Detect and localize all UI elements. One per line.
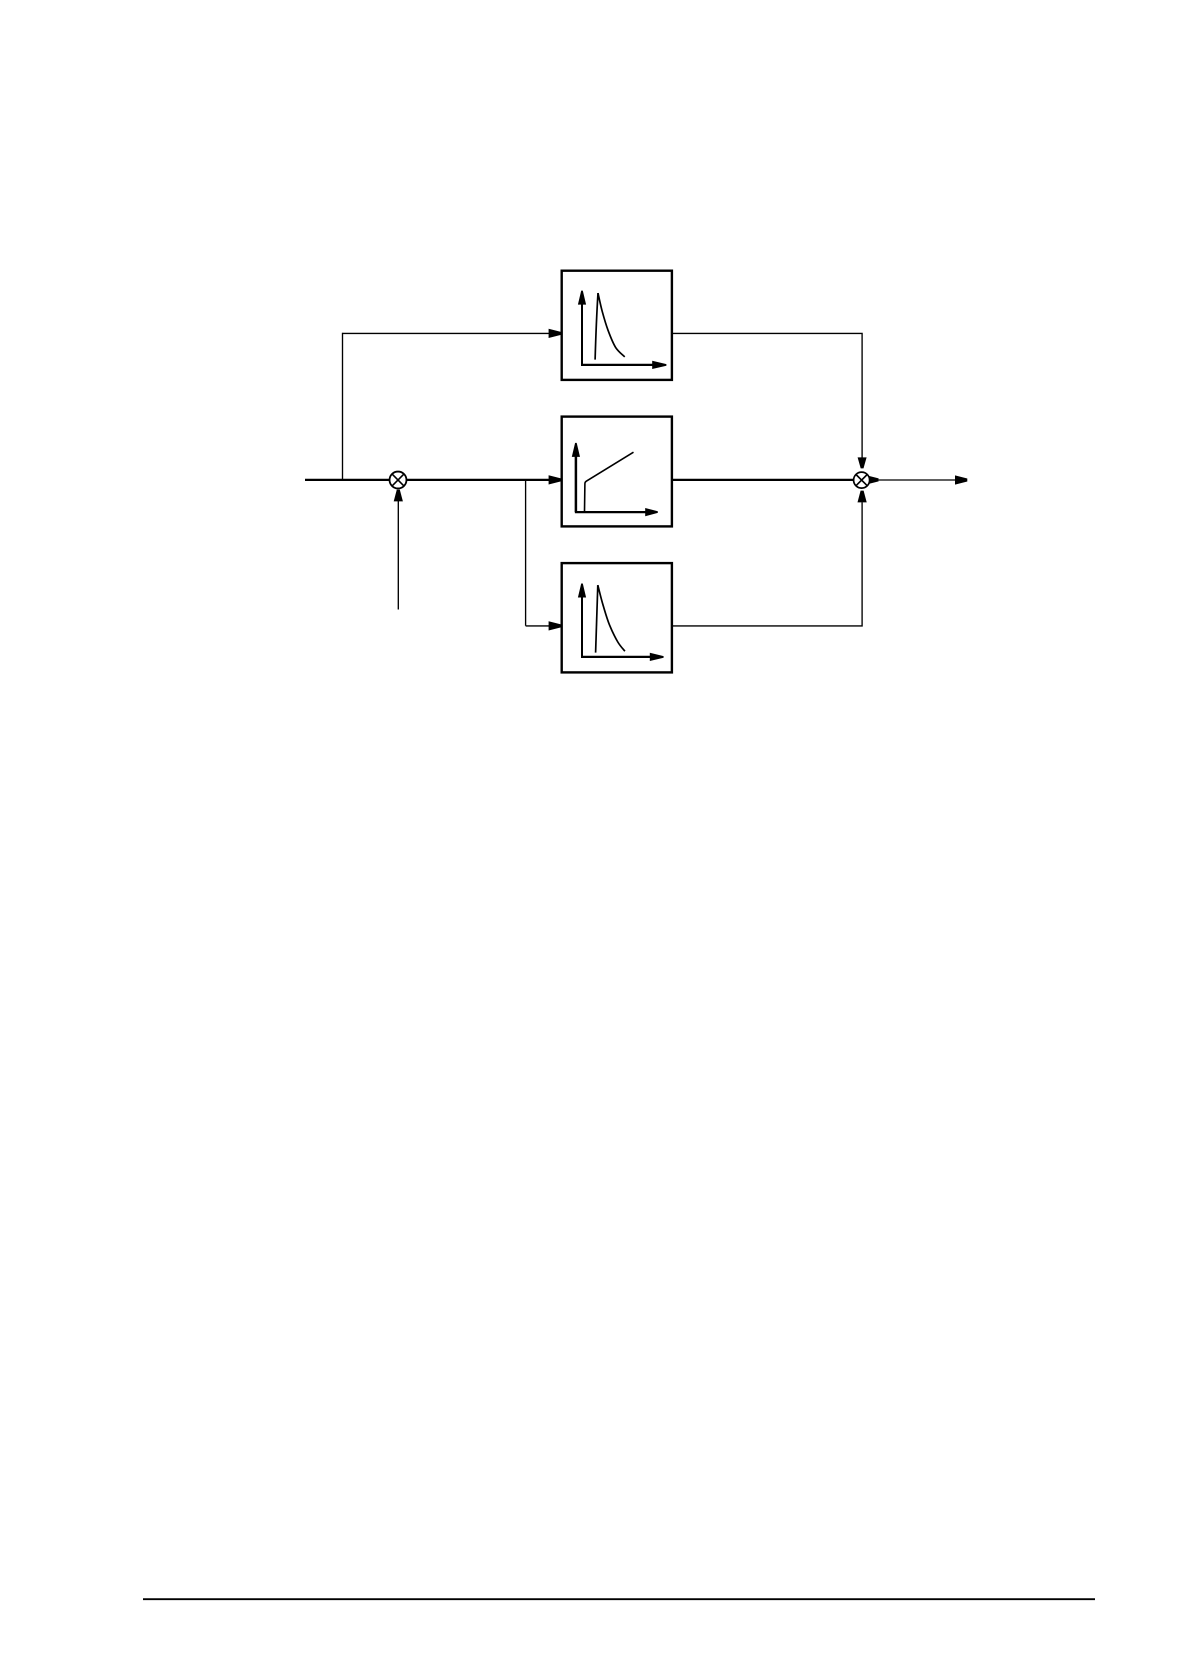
arrowhead into middle block input — [549, 475, 561, 484]
block 1 curve rising flank — [595, 293, 598, 360]
block 2 x-axis arrowhead — [645, 508, 658, 516]
arrowhead into M2 top — [858, 457, 867, 468]
block 3 curve exponential decay — [598, 585, 625, 651]
wire top block output, right then down — [672, 333, 862, 457]
block 2 x-axis — [575, 511, 647, 513]
arrowhead into bottom block input — [549, 621, 561, 630]
wire branch down from node — [525, 480, 527, 626]
wire middle block output into M2 — [672, 479, 867, 481]
block 1 box (top, envelope follower) — [562, 271, 672, 380]
block 2 y-axis arrowhead — [572, 443, 580, 457]
wire branch bottom horizontal — [526, 625, 550, 627]
block 3 curve rising flank — [596, 585, 598, 653]
block 1 y-axis — [581, 304, 583, 366]
block 2 box (middle, static characteristic) — [562, 417, 672, 527]
arrowhead into top block input — [549, 329, 561, 338]
wire branch up from node — [342, 333, 344, 480]
wire control input rising into multiplier M1 — [397, 501, 399, 610]
block 3 y-axis — [581, 597, 583, 658]
block 1 x-axis arrowhead — [652, 361, 666, 369]
block 3 box (bottom, envelope follower) — [562, 563, 672, 672]
arrowhead into M2 bottom — [858, 491, 867, 503]
block 1 y-axis arrowhead — [578, 291, 586, 305]
block 3 x-axis arrowhead — [650, 653, 664, 661]
wire output — [879, 479, 957, 481]
block 3 y-axis arrowhead — [578, 584, 586, 598]
wire branch top horizontal — [343, 332, 550, 334]
block 2 broken-line characteristic — [585, 452, 634, 511]
wire main input — [305, 479, 550, 481]
footer rule — [143, 1598, 1095, 1600]
arrowhead at M2 right (base hidden by circle) — [866, 475, 878, 484]
block 1 curve exponential decay — [598, 293, 625, 357]
block 2 y-axis — [575, 456, 578, 513]
block 1 x-axis — [581, 364, 654, 366]
multiplier M1 (circle with X) — [390, 472, 407, 489]
arrowhead output end — [955, 475, 967, 484]
multiplier M2 (circle with X) — [854, 472, 870, 488]
block 3 x-axis — [581, 656, 651, 658]
arrowhead into M1 bottom — [394, 490, 403, 502]
wire bottom block output, right then up — [672, 502, 862, 626]
